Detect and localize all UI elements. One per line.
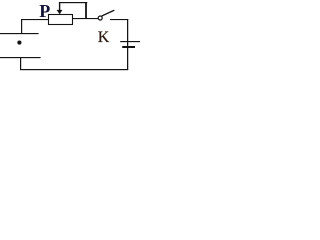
svg-text:P: P [39,1,50,21]
svg-text:K: K [98,29,110,46]
